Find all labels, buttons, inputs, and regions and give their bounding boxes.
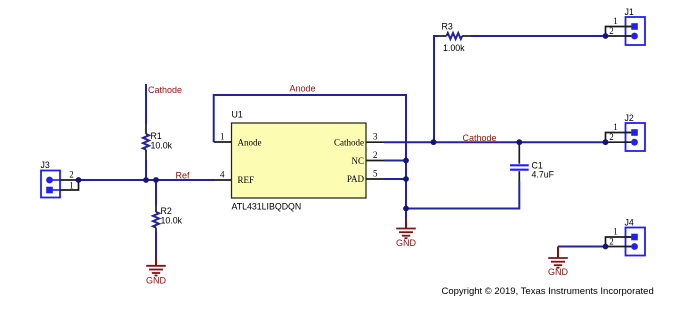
node junction R2 top <box>153 177 159 183</box>
resistor R2 <box>153 205 183 232</box>
svg-text:R3: R3 <box>442 22 453 32</box>
svg-text:Cathode: Cathode <box>463 133 497 143</box>
svg-text:1: 1 <box>220 131 225 141</box>
svg-text:10.0k: 10.0k <box>151 141 173 151</box>
J3 pin 1 wire <box>60 180 79 190</box>
connector J3 body <box>41 171 60 198</box>
U1 pin 5 PAD <box>347 168 384 184</box>
svg-text:PAD: PAD <box>347 174 365 184</box>
J2 pin 1 wire <box>606 133 632 143</box>
node junction NC <box>403 158 409 164</box>
wire R2 bottom down to GND <box>155 232 157 258</box>
svg-text:ATL431LIBQDQN: ATL431LIBQDQN <box>232 202 302 212</box>
wire Cathode net: U1 pin3 to J2 junction <box>384 141 606 143</box>
node junction C1 top <box>516 139 522 145</box>
J2 pin 2 wire <box>606 141 632 143</box>
svg-text:Anode: Anode <box>290 84 316 94</box>
node junction J1 <box>603 33 609 39</box>
svg-text:J4: J4 <box>625 218 634 228</box>
svg-text:REF: REF <box>238 175 255 185</box>
node junction J2 <box>603 139 609 145</box>
svg-text:J2: J2 <box>625 113 634 123</box>
connector J2 <box>606 113 646 151</box>
J1 pin 2 wire <box>606 35 632 37</box>
wire PAD pin5 to anode vertical <box>384 178 406 180</box>
wire NC pin2 to anode vertical <box>384 160 406 162</box>
svg-text:GND: GND <box>146 276 167 286</box>
J1 pin 1 wire <box>606 27 632 37</box>
wire R1 bottom to REF net <box>145 160 147 180</box>
U1 pin 1 Anode <box>214 131 262 147</box>
node junction cap bottom <box>403 206 409 212</box>
ground below anode vertical <box>396 220 417 249</box>
svg-text:J3: J3 <box>41 160 50 170</box>
ground at J4 <box>548 247 569 277</box>
wire REF net down to R2 top <box>155 180 157 205</box>
svg-text:2: 2 <box>69 170 74 180</box>
svg-text:1.00k: 1.00k <box>443 43 465 53</box>
svg-text:1: 1 <box>613 122 618 132</box>
node junction J4 <box>603 244 609 250</box>
J4 pin 2 wire <box>606 246 632 248</box>
svg-text:2: 2 <box>609 26 614 36</box>
wire Cathode stub down to R1 top <box>145 84 147 124</box>
svg-text:Cathode: Cathode <box>334 138 364 148</box>
svg-text:GND: GND <box>548 267 569 277</box>
U1 pin 4 REF <box>214 169 254 185</box>
wire REF net horizontal: J3 junction to U1 pin 4 <box>79 179 215 181</box>
connector J4 <box>606 218 646 256</box>
ground below R2 <box>146 258 167 286</box>
wire J4 junction to GND <box>558 246 606 248</box>
svg-text:J1: J1 <box>625 7 634 17</box>
svg-text:1: 1 <box>613 16 618 26</box>
svg-text:Anode: Anode <box>238 138 262 148</box>
svg-text:2: 2 <box>609 132 614 142</box>
wire R3 right lead to J1 junction <box>471 35 606 37</box>
connector J2 body <box>626 123 646 151</box>
node junction PAD <box>403 176 409 182</box>
connector J4 body <box>626 228 646 256</box>
svg-text:2: 2 <box>609 236 614 246</box>
connector J1 <box>606 7 646 45</box>
resistor R1 <box>143 124 173 160</box>
svg-text:5: 5 <box>373 168 378 178</box>
svg-text:Cathode: Cathode <box>148 85 182 95</box>
J4 pin 1 wire <box>606 237 632 247</box>
svg-text:1: 1 <box>69 180 74 190</box>
svg-text:NC: NC <box>351 156 364 166</box>
svg-text:Copyright © 2019, Texas Instru: Copyright © 2019, Texas Instruments Inco… <box>442 286 654 297</box>
wire Anode net: U1 pin1 up, across top, down right side to GND <box>214 95 406 220</box>
svg-text:10.0k: 10.0k <box>161 216 183 226</box>
svg-text:4.7uF: 4.7uF <box>532 169 555 179</box>
svg-text:GND: GND <box>396 238 417 248</box>
svg-text:R1: R1 <box>151 131 162 141</box>
U1 pin 3 Cathode <box>334 131 384 147</box>
U1 pin 2 NC <box>351 150 384 166</box>
node junction J3 net <box>76 177 82 183</box>
node junction R1 bottom <box>143 177 149 183</box>
svg-text:3: 3 <box>373 131 378 141</box>
IC U1 body <box>232 110 367 212</box>
wire C1 bottom to anode vertical <box>406 181 519 209</box>
wire R3 branch: cathode junction up to R3 row <box>434 36 438 142</box>
connector J1 body <box>626 17 646 45</box>
svg-text:4: 4 <box>220 169 225 179</box>
svg-text:U1: U1 <box>232 110 243 120</box>
resistor R3 <box>438 22 471 54</box>
svg-text:R2: R2 <box>161 206 172 216</box>
svg-text:2: 2 <box>373 150 378 160</box>
J3 pin 2 wire <box>60 179 79 181</box>
svg-text:1: 1 <box>613 227 618 237</box>
connector J3 <box>41 160 79 198</box>
capacitor C1 <box>510 142 555 181</box>
svg-text:Ref: Ref <box>176 171 191 181</box>
node junction R3/cathode <box>431 139 437 145</box>
